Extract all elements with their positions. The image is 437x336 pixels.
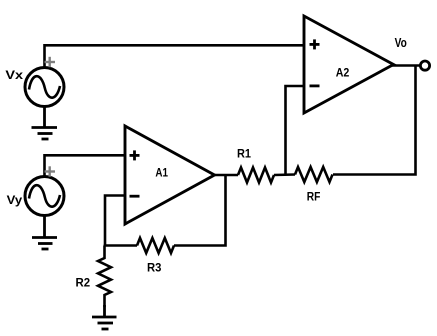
resistor R1: [238, 168, 274, 183]
svg-text:R2: R2: [76, 275, 91, 289]
wire Vy to A1 + input: [45, 155, 126, 177]
source Vy: [25, 177, 64, 216]
wire Vx to A2 + input: [45, 45, 305, 68]
ground of Vy: [32, 216, 57, 250]
ground of Vx: [32, 107, 58, 140]
svg-text:R1: R1: [237, 146, 251, 160]
op-amp A2: [304, 16, 394, 113]
wire R3 to A1 output node: [174, 175, 226, 246]
resistor R2: [98, 246, 111, 308]
wire RF to output feedback: [333, 66, 416, 175]
source Vx: [25, 68, 64, 107]
polarity + of Vx: [45, 57, 56, 67]
wire junction to A2 inverting input: [286, 86, 305, 175]
wire junction to R3: [104, 244, 137, 247]
svg-text:Vx: Vx: [5, 68, 23, 82]
svg-text:RF: RF: [307, 190, 321, 204]
resistor RF: [295, 167, 332, 182]
svg-text:A2: A2: [336, 66, 350, 80]
polarity + of Vy: [45, 166, 56, 176]
op-amp A1: [125, 126, 215, 224]
wire A2 output: [391, 64, 420, 67]
svg-text:Vo: Vo: [395, 35, 407, 50]
svg-text:A1: A1: [155, 166, 168, 180]
wire A1 output: [212, 174, 238, 177]
svg-text:R3: R3: [147, 261, 162, 275]
wire A1 inverting input feedback: [105, 196, 125, 246]
ground of R2: [92, 305, 117, 329]
terminal Vo: [420, 61, 429, 70]
svg-text:Vy: Vy: [7, 193, 23, 207]
resistor R3: [137, 238, 174, 253]
wire R1 to junction: [274, 173, 295, 176]
